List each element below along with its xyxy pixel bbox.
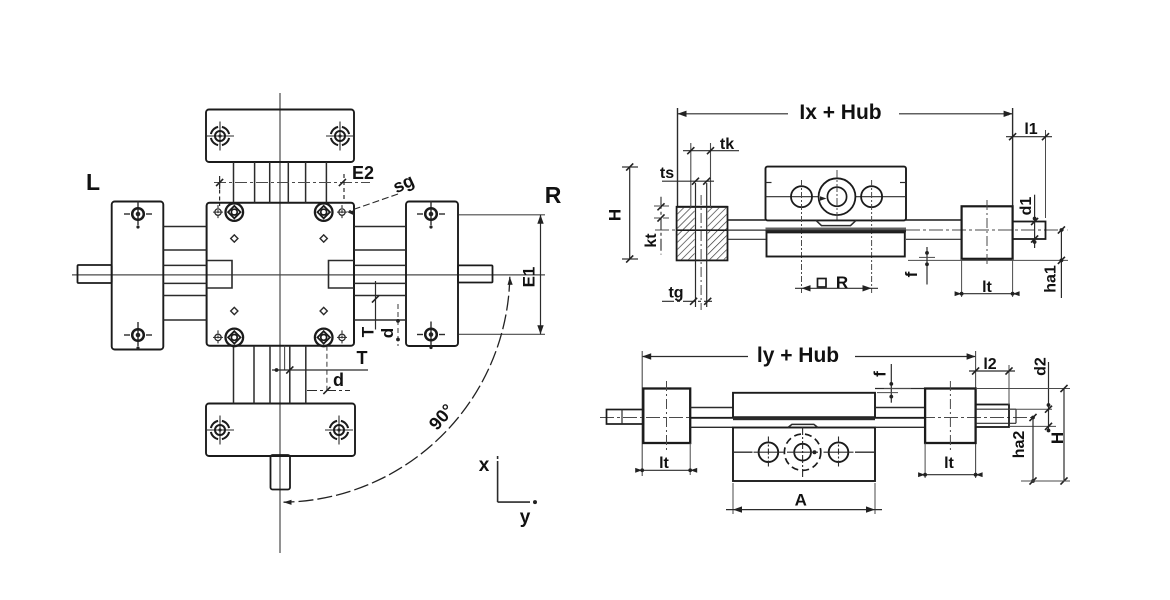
svg-text:f: f: [871, 371, 890, 377]
svg-text:lt: lt: [982, 279, 992, 296]
dimension ts: [660, 165, 714, 185]
carriage bolt top-left: [226, 203, 244, 221]
dimension tg: [662, 285, 712, 305]
svg-text:E2: E2: [352, 163, 374, 183]
Y-axis screw centerline: [600, 417, 1033, 419]
dimension l2: [969, 356, 1015, 405]
svg-text:d: d: [378, 328, 397, 338]
svg-text:d2: d2: [1033, 357, 1050, 376]
svg-text:f: f: [902, 271, 921, 277]
bolt hole bottom plate right: [325, 416, 353, 445]
guide rail lines right side: [354, 227, 406, 321]
svg-text:A: A: [795, 491, 807, 510]
label R: [545, 182, 562, 208]
Y carriage body upper: [733, 393, 875, 417]
shaft journal d2: [976, 405, 1016, 428]
bolt hole top plate left: [206, 122, 234, 151]
guide rail lines top side: [234, 162, 327, 203]
mounting plane line lx view: [908, 259, 1068, 261]
dimension f ly view: [871, 364, 912, 403]
table hole left ly: [754, 437, 784, 469]
dimension A: [726, 483, 882, 514]
dimension lt lx view: [955, 259, 1020, 297]
carriage body lower: [767, 232, 905, 256]
guide rail dark band ly: [733, 417, 875, 420]
coordinate axes x-y: [479, 455, 537, 528]
dimension E1: [459, 215, 545, 334]
svg-text:y: y: [520, 507, 531, 528]
svg-text:R: R: [545, 182, 562, 208]
carriage bolt top-right: [315, 203, 333, 221]
svg-text:ha2: ha2: [1011, 431, 1028, 459]
nut housing cross-section (hatched): [677, 207, 728, 261]
dimension square R: [795, 273, 878, 292]
dimension H ly view: [976, 385, 1070, 485]
guide rail dark band lx: [766, 228, 907, 232]
carriage hole left: [791, 180, 812, 293]
Y screw between left block and table: [690, 408, 733, 428]
Y table body lower: [733, 428, 875, 482]
bolt hole top plate right: [326, 122, 354, 151]
dimension d1: [1018, 195, 1038, 248]
threaded hole sg top-left: [213, 205, 223, 219]
dimension d2: [1009, 357, 1056, 432]
svg-text:x: x: [479, 455, 490, 476]
X-axis screw centerline: [655, 229, 1068, 231]
svg-text:ts: ts: [660, 165, 674, 182]
svg-text:lt: lt: [944, 455, 954, 472]
svg-text:T: T: [359, 326, 378, 337]
threaded hole sg bottom-right: [337, 330, 347, 344]
bearing block lx view: [962, 200, 1013, 265]
guide rail lines left side: [163, 227, 206, 321]
bottom mounting plate: [206, 404, 355, 457]
svg-text:lt: lt: [659, 455, 669, 472]
svg-text:tg: tg: [668, 285, 683, 302]
right shaft end: [458, 265, 493, 282]
label sg with leader: [347, 170, 418, 215]
svg-text:Ix + Hub: Ix + Hub: [799, 101, 881, 124]
screw shaft right segment lx: [906, 220, 962, 239]
svg-text:H: H: [1048, 432, 1067, 444]
central carriage block: [207, 203, 354, 346]
svg-text:l1: l1: [1024, 121, 1037, 138]
carriage bolt bottom-left: [226, 329, 244, 347]
threaded hole sg bottom-left: [213, 330, 223, 344]
Y screw between table and right block: [875, 389, 925, 428]
svg-text:R: R: [836, 273, 848, 292]
dimension ly + Hub: [642, 344, 975, 478]
dimension lt ly right: [918, 443, 983, 478]
bolt hole left plate lower: [124, 322, 152, 350]
pin hole upper-left: [231, 235, 238, 242]
svg-text:tk: tk: [720, 136, 734, 153]
pin hole lower-right: [320, 307, 327, 314]
vertical centerline of cross-table: [279, 93, 281, 553]
bolt hole right plate lower: [417, 322, 445, 350]
dimension l1: [1006, 121, 1052, 218]
bearing block ly left: [643, 381, 690, 450]
dimension d right side: [378, 304, 400, 346]
wiper tab under carriage: [816, 220, 856, 225]
dimension H lx view: [606, 163, 639, 262]
left mounting plate: [112, 202, 164, 350]
svg-text:l2: l2: [983, 356, 996, 373]
threaded hole sg top-right: [337, 205, 347, 219]
bolt hole right plate upper: [417, 201, 445, 229]
svg-text:E1: E1: [520, 267, 539, 288]
svg-text:kt: kt: [643, 233, 660, 248]
svg-text:T: T: [357, 348, 368, 368]
shaft journal d1: [1013, 222, 1046, 240]
bolt hole bottom plate left: [206, 416, 234, 445]
90 degree swing arc: [284, 277, 513, 505]
bottom shaft end: [271, 455, 291, 490]
Y screw left end stub: [607, 410, 644, 425]
dimension kt: [643, 197, 672, 255]
bearing block ly right: [925, 381, 976, 450]
dimension T right side: [359, 281, 380, 337]
svg-text:ly + Hub: ly + Hub: [757, 344, 839, 367]
svg-text:ha1: ha1: [1043, 265, 1060, 293]
screw bore walls: [696, 183, 707, 310]
svg-text:d1: d1: [1018, 197, 1035, 216]
right mounting plate: [406, 202, 458, 347]
X carriage body upper: [766, 167, 907, 221]
wiper tab ly: [788, 424, 818, 427]
right T-slot tab on block: [329, 261, 355, 289]
top mounting plate: [206, 110, 354, 163]
dimension T bottom side: [272, 348, 368, 374]
table hole right ly: [824, 437, 854, 469]
pin hole lower-left: [231, 307, 238, 314]
pin hole upper-right: [320, 235, 327, 242]
svg-text:d: d: [333, 370, 344, 390]
table center bore ly: [784, 427, 820, 478]
carriage hole right: [861, 180, 882, 293]
svg-text:L: L: [86, 169, 100, 195]
screw shaft left segment lx: [728, 220, 766, 239]
dimension d bottom side: [307, 370, 350, 394]
dimension lt ly left: [635, 443, 697, 475]
dimension E2: [214, 163, 374, 206]
dimension ha2: [1011, 414, 1037, 485]
dimension ha1: [1043, 226, 1065, 298]
guide rail lines bottom side: [234, 346, 327, 404]
dimension tk: [683, 136, 739, 207]
svg-text:H: H: [606, 209, 625, 221]
label L: [86, 169, 100, 195]
dimension lx + Hub: [678, 101, 1013, 207]
horizontal centerline of cross-table: [72, 274, 545, 276]
bolt hole left plate upper: [124, 201, 152, 229]
dimension f lx view: [902, 247, 935, 285]
left shaft end: [78, 265, 112, 283]
carriage bolt bottom-right: [315, 329, 333, 347]
carriage center bore: [819, 170, 856, 220]
left T-slot tab on block: [207, 261, 232, 289]
mounting plane line ly view: [1021, 480, 1070, 482]
